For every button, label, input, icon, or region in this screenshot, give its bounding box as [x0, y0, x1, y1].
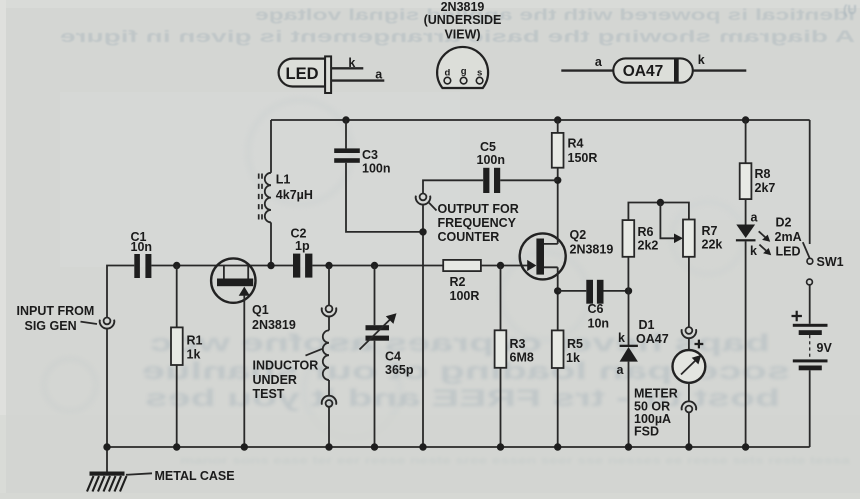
wire freq terminal sleeve to ground rail	[422, 204, 424, 447]
label C4 365p	[385, 350, 414, 378]
svg-text:k: k	[750, 244, 757, 258]
wire R6 top lead	[628, 203, 689, 221]
LED package outline (top legend)	[279, 56, 332, 93]
resistor R4	[552, 133, 564, 168]
label R7 22k	[702, 224, 723, 252]
svg-text:TEST: TEST	[253, 387, 285, 401]
svg-text:1k: 1k	[566, 351, 580, 365]
wire R7 bottom to meter	[688, 257, 690, 327]
inductor L1	[259, 173, 271, 223]
svg-text:identical is powered with the: identical is powered with the applied si…	[255, 7, 855, 24]
wire R1 bottom lead	[176, 365, 178, 447]
label meter plus sign	[695, 340, 704, 349]
terminal output for frequency counter	[416, 194, 431, 205]
svg-text:100n: 100n	[362, 161, 391, 175]
wire R4 top lead	[557, 120, 559, 133]
terminal test inductor top	[322, 305, 337, 316]
node test inductor ground	[325, 443, 332, 450]
wire L1 top lead from rail	[270, 120, 272, 173]
wire down to test terminal	[328, 266, 330, 306]
svg-text:R7: R7	[702, 224, 718, 238]
label R6 2k2	[638, 225, 659, 253]
2N3819 underside package	[437, 47, 488, 88]
wire freq terminal riser	[423, 180, 483, 193]
svg-text:k: k	[618, 331, 625, 345]
wire terminal to meter	[688, 338, 690, 350]
wire test inductor bottom to rail	[328, 407, 330, 447]
svg-text:d: d	[444, 68, 450, 79]
label C1 10n	[131, 230, 153, 254]
terminal meter minus	[682, 401, 697, 412]
svg-text:C4: C4	[385, 350, 401, 364]
diode D1 (OA47)	[620, 345, 638, 362]
svg-text:Q2: Q2	[570, 228, 587, 242]
wire R4 bottom lead	[557, 168, 559, 181]
wire L1 bottom lead	[270, 222, 272, 265]
wire Q1 gate to ground rail	[243, 295, 245, 447]
svg-text:COUNTER: COUNTER	[438, 230, 500, 244]
inductor under test coil	[323, 316, 329, 396]
svg-text:1k: 1k	[187, 348, 201, 362]
node R3 ground	[497, 443, 504, 450]
svg-text:INDUCTOR: INDUCTOR	[253, 359, 319, 373]
potentiometer R7 wiper arrowhead	[674, 234, 683, 244]
meter M1	[673, 350, 706, 383]
OA47 package body	[613, 58, 693, 82]
svg-text:150R: 150R	[568, 151, 598, 165]
potentiometer R7	[683, 220, 695, 257]
svg-text:FSD: FSD	[634, 425, 659, 439]
node C6 right / R6 bottom / D1 top	[625, 287, 632, 294]
svg-text:L1: L1	[276, 173, 291, 187]
capacitor C5	[483, 168, 558, 193]
svg-text:R8: R8	[755, 167, 771, 181]
svg-text:100n: 100n	[477, 153, 506, 167]
terminal test inductor bottom	[322, 396, 337, 407]
wire R7 wiper	[660, 203, 676, 239]
node D2 ground	[742, 443, 749, 450]
svg-text:OA47: OA47	[636, 332, 669, 346]
wire D1 bottom lead	[628, 362, 630, 447]
svg-text:2k7: 2k7	[755, 181, 776, 195]
node C3/freq junction	[419, 228, 426, 235]
svg-text:OUTPUT FOR: OUTPUT FOR	[438, 202, 519, 216]
resistor R5	[552, 330, 564, 368]
wire battery to ground rail	[809, 370, 811, 447]
svg-text:2mA: 2mA	[775, 230, 802, 244]
label R1 1k	[187, 334, 203, 362]
node freq ground	[419, 443, 426, 450]
wire R6 bottom lead	[627, 257, 629, 291]
label Q1 2N3819	[252, 303, 296, 332]
wire R8 to D2	[745, 199, 747, 224]
svg-text:22k: 22k	[702, 238, 723, 252]
svg-text:10n: 10n	[588, 317, 610, 331]
capacitor C6	[558, 280, 629, 304]
svg-text:INPUT FROM: INPUT FROM	[17, 304, 95, 318]
svg-text:FREQUENCY: FREQUENCY	[438, 216, 517, 230]
label 2N3819 (UNDERSIDE VIEW)	[424, 0, 502, 42]
svg-text:SW1: SW1	[817, 255, 844, 269]
label METER 50 OR 100uA FSD	[634, 387, 678, 439]
svg-text:VIEW): VIEW)	[444, 28, 480, 42]
svg-text:LED: LED	[776, 244, 801, 258]
svg-text:D1: D1	[639, 318, 655, 332]
variable capacitor C4	[360, 313, 397, 349]
transistor Q1 (2N3819 JFET)	[211, 258, 255, 302]
svg-text:(UNDERSIDE: (UNDERSIDE	[424, 13, 502, 27]
label METAL CASE	[126, 469, 235, 483]
wire Q2 drain riser	[557, 180, 559, 244]
node L1 junction	[267, 262, 274, 269]
node test inductor top	[325, 262, 332, 269]
svg-text:R3: R3	[510, 337, 526, 351]
node R1 ground	[173, 443, 180, 450]
svg-text:SIG GEN: SIG GEN	[25, 319, 77, 333]
wire meter to bottom terminal	[688, 383, 690, 402]
wire C2 to R2 (signal line)	[312, 265, 443, 267]
svg-text:k: k	[698, 53, 705, 67]
node R1 top	[173, 262, 180, 269]
wire C3 bottom to freq-gnd junction	[346, 163, 423, 232]
node R6/R7 wiper top	[657, 199, 664, 206]
svg-text:10n: 10n	[131, 240, 153, 254]
node Q1 gate ground	[241, 443, 248, 450]
svg-text:C5: C5	[480, 140, 496, 154]
wire D1 top lead	[628, 291, 630, 345]
label Q2 2N3819	[570, 228, 614, 257]
svg-text:baps hever ovpraes asofne woc: baps hever ovpraes asofne woc	[150, 330, 770, 357]
svg-text:a: a	[617, 363, 625, 377]
svg-text:R2: R2	[450, 275, 466, 289]
wire input branch: terminal up to C1	[107, 266, 134, 318]
wire top supply rail	[271, 119, 810, 121]
wire R1 top lead	[176, 266, 178, 328]
svg-text:9V: 9V	[817, 341, 833, 355]
label D2 2mA LED with a and k	[750, 210, 802, 258]
wire C4 top lead	[374, 266, 376, 326]
svg-text:s: s	[477, 68, 482, 79]
svg-text:a: a	[751, 210, 759, 224]
wire D2 cathode to rail	[745, 241, 747, 447]
label R5 1k	[566, 337, 583, 365]
svg-text:Q1: Q1	[252, 303, 269, 317]
wire C3 top lead	[345, 120, 347, 148]
wire C1 to C2 (signal line through Q1)	[151, 265, 293, 267]
resistor R6	[623, 220, 635, 257]
svg-text:2k2: 2k2	[638, 239, 659, 253]
node meter ground	[685, 443, 692, 450]
wire switch feed from rail	[809, 120, 811, 244]
svg-text:1p: 1p	[295, 239, 310, 253]
label INPUT FROM SIG GEN	[17, 304, 98, 333]
node R8 top rail	[742, 116, 749, 123]
transistor Q2 (2N3819 JFET)	[520, 233, 566, 279]
svg-text:365p: 365p	[385, 363, 414, 377]
svg-text:C6: C6	[588, 302, 604, 316]
label INDUCTOR UNDER TEST	[253, 349, 323, 401]
svg-text:R4: R4	[568, 137, 584, 151]
wire Q2 source drop	[557, 267, 559, 330]
wire R3 top lead	[500, 266, 502, 331]
svg-text:R6: R6	[638, 225, 654, 239]
label C2 1p	[291, 227, 310, 254]
node C4 top	[371, 262, 378, 269]
capacitor C3	[334, 148, 360, 162]
node ground stub	[103, 443, 110, 450]
terminal meter plus	[682, 327, 697, 338]
label R2 100R	[450, 275, 480, 303]
input terminal (INPUT FROM SIG GEN socket)	[100, 318, 115, 329]
label OUTPUT FOR FREQUENCY COUNTER	[429, 202, 519, 244]
label C3 100n	[362, 148, 391, 176]
resistor R3	[495, 330, 507, 368]
node C3 top rail	[342, 116, 349, 123]
svg-text:2N3819: 2N3819	[252, 318, 296, 332]
LED package a lead	[331, 79, 384, 81]
OA47 package a lead	[561, 69, 613, 71]
ground metal case symbol	[87, 472, 127, 492]
node R5 ground	[554, 443, 561, 450]
svg-text:6M8: 6M8	[510, 351, 534, 365]
wire R8 top lead	[745, 120, 747, 163]
svg-text:(U: (U	[843, 2, 857, 17]
svg-text:k: k	[348, 56, 355, 70]
wire input terminal to ground rail	[106, 328, 108, 447]
node R4/C5/drain junction	[554, 177, 561, 184]
battery B1 9V	[792, 311, 828, 371]
label L1 4k7uH	[276, 173, 313, 202]
switch SW1	[803, 242, 813, 285]
svg-text:2N3819: 2N3819	[570, 243, 614, 257]
resistor R2	[443, 260, 481, 271]
label R3 6M8	[510, 337, 534, 365]
wire ground stub	[106, 447, 108, 472]
svg-text:4k7µH: 4k7µH	[276, 188, 313, 202]
svg-text:100R: 100R	[450, 289, 480, 303]
wire R5 bottom lead	[557, 368, 559, 447]
node C4 ground	[371, 443, 378, 450]
resistor R8	[740, 163, 752, 199]
svg-text:LED: LED	[286, 65, 319, 83]
node C6 left	[554, 287, 561, 294]
svg-text:a: a	[375, 68, 383, 82]
label R8 2k7	[755, 167, 776, 195]
svg-text:g: g	[461, 66, 467, 77]
capacitor C2	[293, 254, 312, 278]
svg-text:C3: C3	[362, 148, 378, 162]
svg-text:a: a	[595, 55, 603, 69]
wire switch to battery	[809, 285, 811, 324]
resistor R1	[171, 327, 183, 365]
node Q2 gate / R3	[497, 262, 504, 269]
label C6 10n	[588, 302, 610, 331]
wire R3 bottom lead	[500, 368, 502, 447]
label R4 150R	[568, 137, 598, 165]
svg-text:D2: D2	[776, 215, 792, 229]
svg-text:UNDER: UNDER	[253, 373, 297, 387]
svg-text:OA47: OA47	[623, 63, 664, 80]
node D1 ground	[625, 443, 632, 450]
LED package k lead	[331, 67, 363, 69]
LED D2	[736, 225, 771, 256]
svg-text:2N3819: 2N3819	[441, 0, 485, 14]
wire C4 bottom lead	[374, 341, 376, 447]
svg-text:METAL CASE: METAL CASE	[155, 469, 235, 483]
wire bottom ground rail	[107, 446, 810, 448]
label C5 100n	[477, 140, 506, 167]
svg-text:R1: R1	[187, 334, 203, 348]
wire R2 to Q2 gate	[481, 265, 530, 267]
OA47 package k lead	[693, 69, 747, 71]
node R4 top rail	[554, 116, 561, 123]
label D1 OA47 with k and a	[617, 318, 669, 377]
capacitor C1	[134, 254, 151, 278]
svg-text:R5: R5	[567, 337, 583, 351]
wire meter bottom terminal to rail	[688, 412, 690, 447]
